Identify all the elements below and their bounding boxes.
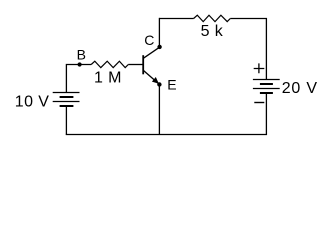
svg-text:C: C bbox=[144, 32, 154, 48]
transistor Q1 emitter diagonal bbox=[144, 71, 160, 85]
battery V2 short plate bbox=[260, 83, 273, 85]
svg-text:E: E bbox=[167, 76, 176, 92]
battery V2 minus sign bbox=[254, 102, 264, 104]
battery V1 long plate top bbox=[53, 92, 80, 94]
wire: 20V battery down to bottom wire bbox=[265, 94, 267, 135]
battery V1 short plate bbox=[60, 96, 74, 98]
resistor R1 zigzag bbox=[91, 61, 128, 67]
svg-text:20 V: 20 V bbox=[282, 80, 318, 97]
wire: 10V battery down to bottom wire bbox=[65, 107, 67, 135]
svg-text:10 V: 10 V bbox=[15, 94, 50, 111]
wire: emitter drop from node E to bottom wire bbox=[158, 85, 160, 135]
svg-text:5 k: 5 k bbox=[201, 23, 224, 40]
transistor Q1 collector diagonal bbox=[144, 47, 160, 58]
battery V2 plus sign bbox=[254, 63, 265, 73]
wire: collector riser from node C to top wire bbox=[158, 18, 160, 45]
resistor R2 zigzag bbox=[194, 15, 231, 21]
wire: R2 to top right corner and down to 20V battery bbox=[230, 19, 266, 80]
battery V2 long plate bottom bbox=[253, 88, 280, 90]
battery V1 short plate bottom bbox=[60, 105, 74, 107]
wire: R1 to base of Q1 bbox=[128, 64, 143, 66]
node B dot bbox=[78, 62, 82, 66]
node E dot bbox=[157, 82, 161, 86]
transistor Q1 emitter arrowhead bbox=[152, 77, 159, 84]
wire: base loop top-left (10V top to node B to R1) bbox=[66, 65, 91, 93]
wire: top left segment to R2 bbox=[159, 18, 193, 20]
wire: bottom return bbox=[66, 134, 267, 136]
node C dot bbox=[157, 45, 161, 49]
battery V1 long plate bottom bbox=[53, 101, 80, 103]
transistor Q1 base bar bbox=[142, 55, 144, 74]
svg-text:B: B bbox=[77, 46, 86, 62]
svg-text:1 M: 1 M bbox=[94, 69, 122, 86]
battery V2 long plate top bbox=[253, 79, 280, 81]
battery V2 short plate bottom bbox=[260, 92, 273, 94]
